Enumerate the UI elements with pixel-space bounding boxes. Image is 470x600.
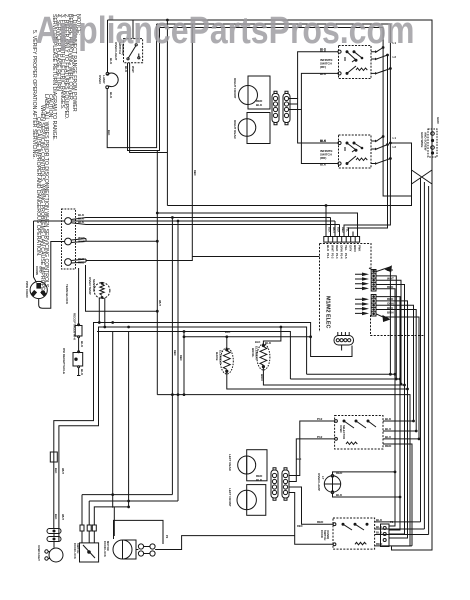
svg-text:BLU: BLU bbox=[385, 427, 391, 431]
svg-text:RED: RED bbox=[179, 355, 183, 361]
svg-text:BLK: BLK bbox=[326, 245, 330, 252]
svg-text:P12: P12 bbox=[317, 417, 323, 421]
svg-text:BAKE: BAKE bbox=[215, 352, 219, 361]
wire: motor connections bbox=[136, 547, 150, 554]
wire: neutral drop from terminal area bbox=[86, 265, 158, 311]
svg-text:ELEMENT: ELEMENT bbox=[219, 350, 223, 365]
svg-text:WHT: WHT bbox=[131, 66, 135, 73]
wire: second top line to right rail bbox=[157, 23, 391, 25]
svg-text:BLK: BLK bbox=[256, 478, 263, 482]
svg-text:PNK: PNK bbox=[358, 245, 362, 252]
svg-text:MOTOR: MOTOR bbox=[106, 541, 110, 551]
wire: pin risers bbox=[88, 501, 90, 525]
svg-text:BLK: BLK bbox=[54, 468, 58, 473]
svg-text:GRD: GRD bbox=[39, 266, 43, 274]
svg-text:WHT: WHT bbox=[158, 300, 162, 306]
terminal WHT bbox=[65, 238, 72, 245]
surface connector top strip 1 bbox=[272, 94, 279, 123]
svg-text:BLK: BLK bbox=[255, 340, 260, 344]
svg-text:OVEN TEMP: OVEN TEMP bbox=[88, 277, 92, 295]
svg-text:SWITCH: SWITCH bbox=[76, 543, 80, 553]
svg-text:RIGHT FRONT: RIGHT FRONT bbox=[233, 78, 237, 99]
tiny labels bbox=[25, 41, 440, 561]
svg-text:(RF): (RF) bbox=[320, 65, 326, 69]
svg-text:P1-5: P1-5 bbox=[344, 253, 348, 259]
svg-text:RED: RED bbox=[297, 524, 303, 528]
RF infinite switch (dashed) bbox=[339, 46, 372, 79]
wire: bake element connections bbox=[227, 337, 408, 389]
surface connector tabs bottom bbox=[273, 468, 287, 501]
svg-text:BLU: BLU bbox=[387, 306, 393, 310]
control header (8 pins) bbox=[324, 237, 360, 243]
svg-text:ELEMENT: ELEMENT bbox=[255, 346, 259, 361]
svg-text:PWR CORD: PWR CORD bbox=[25, 281, 29, 298]
right rear burner bbox=[238, 119, 256, 137]
svg-text:BLK: BLK bbox=[265, 341, 272, 345]
wire: third top line to right rail bbox=[160, 27, 384, 29]
svg-text:RED: RED bbox=[341, 227, 345, 233]
surface connector top strip 2 bbox=[283, 94, 290, 123]
svg-text:BLK: BLK bbox=[80, 341, 84, 348]
door lock motor bbox=[113, 540, 132, 559]
wire: bottom-left horizontals bbox=[82, 494, 172, 496]
wire: plug to terminal block bbox=[34, 221, 65, 283]
svg-text:SELECTOR: SELECTOR bbox=[342, 425, 346, 439]
wire: main top line L1 + right border + bottom stub bbox=[108, 20, 433, 550]
svg-text:P12: P12 bbox=[317, 435, 323, 439]
terminal block (dashed) bbox=[62, 209, 76, 269]
wire: rail v387.5 to header pin 7 bbox=[349, 55, 388, 237]
svg-text:BLK: BLK bbox=[256, 103, 263, 107]
wire: relay 1 fan bbox=[376, 267, 390, 374]
wire: rail v390.4 to header pin 6 bbox=[344, 24, 390, 237]
svg-text:ORN: ORN bbox=[340, 245, 344, 252]
wire: lamp connections bbox=[333, 472, 396, 475]
svg-text:BLK: BLK bbox=[320, 139, 327, 143]
wire: bus 1 (to header and ground X) bbox=[167, 170, 411, 206]
svg-text:BLK: BLK bbox=[225, 330, 230, 334]
svg-text:RECEPTACLE HI-K: RECEPTACLE HI-K bbox=[73, 313, 77, 341]
svg-text:DSI RECEPTACLE: DSI RECEPTACLE bbox=[62, 348, 66, 374]
svg-text:RED: RED bbox=[193, 170, 197, 176]
svg-text:RED: RED bbox=[387, 285, 394, 289]
svg-text:SENSOR: SENSOR bbox=[92, 279, 96, 293]
wire: vertical risers to buses bbox=[166, 148, 168, 206]
wire: BLK fan from terminal 1 bbox=[71, 218, 339, 225]
wire: bake feed line bbox=[184, 332, 311, 395]
svg-text:BLK: BLK bbox=[296, 457, 301, 461]
wire: left bus A (to sensor connector) bbox=[54, 323, 352, 529]
wire: DSI chain bbox=[78, 268, 80, 326]
svg-text:(OVEN): (OVEN) bbox=[326, 530, 330, 539]
svg-text:BROIL: BROIL bbox=[251, 348, 255, 358]
svg-text:WHT: WHT bbox=[61, 468, 65, 474]
wire: connector to RR switch lower bbox=[301, 110, 338, 164]
svg-text:WHT: WHT bbox=[61, 514, 65, 520]
wire: broil element connections bbox=[263, 327, 404, 385]
relay strip 2 bbox=[371, 295, 376, 317]
svg-text:RED: RED bbox=[335, 245, 339, 252]
surface connector bottom strip 2 bbox=[282, 470, 289, 498]
P2 connector box bottom right bbox=[381, 524, 390, 547]
svg-text:GRD WIRE: GRD WIRE bbox=[420, 132, 424, 147]
svg-text:RED: RED bbox=[376, 542, 383, 546]
svg-text:BLK: BLK bbox=[107, 130, 111, 135]
surface connector bottom strip 1 bbox=[271, 470, 278, 498]
surface connector tabs bbox=[274, 91, 288, 125]
wire: vertical drops mid-left bbox=[113, 332, 129, 507]
right front burner bbox=[239, 86, 258, 105]
wire: bus drops to header pins 3,4 bbox=[331, 218, 354, 237]
svg-text:BLK: BLK bbox=[109, 58, 113, 65]
svg-text:AND SCREW: AND SCREW bbox=[424, 132, 428, 151]
oven door switch (dashed) bbox=[333, 518, 375, 549]
left front burner bbox=[237, 490, 256, 509]
wire: relay 2 fan bbox=[376, 297, 400, 530]
svg-text:LT: LT bbox=[321, 476, 325, 480]
terminal RED bbox=[65, 259, 72, 266]
svg-text:GRY: GRY bbox=[349, 245, 353, 251]
svg-text:YEL: YEL bbox=[346, 227, 350, 232]
svg-text:RED: RED bbox=[317, 520, 324, 524]
svg-text:ORN: ORN bbox=[387, 302, 394, 306]
svg-text:OVEN: OVEN bbox=[98, 75, 102, 84]
oven light switch (dashed box) bbox=[124, 39, 143, 63]
wire: nested mid loops bbox=[307, 373, 395, 375]
svg-text:BLK: BLK bbox=[124, 66, 128, 73]
terminal BLK bbox=[65, 218, 72, 225]
svg-text:WHT: WHT bbox=[387, 277, 394, 281]
svg-text:LEFT REAR: LEFT REAR bbox=[228, 454, 232, 472]
svg-text:WHT: WHT bbox=[78, 240, 85, 244]
wire: sensor wires down bbox=[99, 298, 105, 328]
svg-text:OVEN LIGHT: OVEN LIGHT bbox=[37, 545, 41, 561]
svg-text:BLK: BLK bbox=[336, 493, 343, 497]
svg-text:BRN: BRN bbox=[353, 245, 357, 252]
relay strip 1 bbox=[371, 270, 376, 292]
oven lamp (bottom) bbox=[324, 476, 340, 492]
wire: WHT fan from terminal 2 bbox=[71, 239, 157, 243]
svg-text:BLK: BLK bbox=[387, 268, 394, 272]
svg-text:BLK: BLK bbox=[320, 163, 327, 167]
svg-text:L1: L1 bbox=[393, 136, 397, 140]
broil element bbox=[260, 347, 267, 366]
svg-text:P1-1: P1-1 bbox=[326, 253, 330, 259]
wire: RR switch outputs (spades) bbox=[371, 137, 390, 164]
svg-text:M1/M2 ELEC: M1/M2 ELEC bbox=[325, 296, 331, 328]
oven lamp (top left) bbox=[107, 20, 109, 73]
svg-text:BLK: BLK bbox=[80, 369, 84, 376]
svg-text:RED: RED bbox=[387, 297, 394, 301]
svg-text:BLK: BLK bbox=[109, 92, 113, 99]
wire: selector switch left connections bbox=[289, 421, 335, 476]
left rear burner bbox=[238, 456, 256, 474]
svg-text:RED: RED bbox=[336, 471, 343, 475]
wire: left bus B (staircase down) bbox=[59, 327, 307, 537]
inline fuse on bulb wire bbox=[50, 452, 57, 462]
svg-text:LAMP: LAMP bbox=[102, 75, 106, 84]
wire: selector outputs right bbox=[383, 421, 419, 546]
motor connector circles bbox=[138, 544, 143, 549]
svg-text:L2: L2 bbox=[393, 55, 397, 59]
wire: RED fan from terminal 3 bbox=[71, 24, 192, 263]
RR infinite switch (dashed) bbox=[339, 135, 372, 168]
bake element bbox=[223, 351, 230, 370]
svg-text:BLU: BLU bbox=[376, 531, 382, 535]
svg-text:BLK: BLK bbox=[54, 514, 58, 519]
inline connectors above bulb bbox=[47, 529, 61, 534]
pwr cord plug bbox=[30, 281, 47, 298]
svg-text:YEL: YEL bbox=[344, 245, 348, 251]
wire: door switch outputs bbox=[375, 522, 429, 546]
notice text block (rotated 90deg) bbox=[31, 14, 81, 295]
door lock pins bbox=[80, 525, 84, 531]
wire: bus 3 (RED to board) bbox=[192, 256, 319, 258]
relay connector arrows 2 bbox=[362, 298, 369, 316]
wire: connector to RF switch lower bbox=[289, 73, 339, 109]
svg-text:CONN: CONN bbox=[35, 266, 39, 275]
svg-text:RED: RED bbox=[78, 261, 85, 265]
svg-text:OVEN LAMP: OVEN LAMP bbox=[317, 473, 321, 491]
svg-text:L2: L2 bbox=[393, 145, 397, 149]
ground strap on border bbox=[428, 129, 437, 157]
receptacle HI-K bbox=[75, 326, 82, 337]
door lock switch body bbox=[80, 543, 99, 562]
sensor connector P4 on board bbox=[334, 336, 354, 346]
svg-text:BLK: BLK bbox=[337, 227, 341, 232]
svg-text:BLU: BLU bbox=[376, 525, 382, 529]
wire: RF switch outputs (spades) bbox=[371, 48, 390, 74]
svg-text:(RR): (RR) bbox=[320, 156, 326, 160]
svg-text:RED: RED bbox=[385, 444, 392, 448]
wire: bus1 drop to header pin 1 bbox=[325, 206, 327, 237]
svg-text:P1-4: P1-4 bbox=[340, 253, 344, 259]
bulb (oven light) bbox=[53, 534, 55, 548]
svg-text:WHT: WHT bbox=[332, 227, 336, 233]
svg-text:BLK: BLK bbox=[320, 72, 327, 76]
svg-text:BLK: BLK bbox=[376, 518, 383, 522]
wire: connector to RR switch bbox=[289, 99, 339, 144]
svg-text:BLK: BLK bbox=[385, 417, 392, 421]
DSI receptacle bbox=[73, 353, 83, 367]
svg-text:BRN: BRN bbox=[260, 374, 264, 381]
oven selector switch (dashed) bbox=[335, 416, 383, 450]
svg-text:LEFT FRONT: LEFT FRONT bbox=[228, 488, 232, 507]
svg-text:P1-2: P1-2 bbox=[331, 253, 335, 259]
svg-text:RIGHT REAR: RIGHT REAR bbox=[233, 120, 237, 140]
relay connector arrows 1 bbox=[362, 273, 369, 291]
svg-text:BLU: BLU bbox=[385, 435, 391, 439]
control board dashed outline M1/M2 ELEC bbox=[320, 244, 425, 336]
wire: rail v383 to header pin 8 bbox=[383, 28, 411, 197]
svg-text:WHT: WHT bbox=[331, 245, 335, 252]
wire: left bus C (staircase down) bbox=[97, 332, 290, 380]
svg-text:GRD: GRD bbox=[436, 117, 440, 125]
wire: strip row 3 to door switch (RED) bbox=[289, 487, 333, 524]
wire: bus 2 bbox=[157, 213, 357, 237]
wire: strip row 4 to door switch bbox=[289, 493, 333, 545]
wire: connector to RF switch bbox=[289, 52, 339, 99]
svg-text:BLK: BLK bbox=[78, 220, 85, 224]
oven temp sensor bbox=[94, 283, 110, 299]
svg-text:BRN: BRN bbox=[387, 311, 394, 315]
svg-text:TERM BLOCK: TERM BLOCK bbox=[65, 284, 69, 305]
svg-text:RED: RED bbox=[173, 350, 177, 356]
svg-text:BLK: BLK bbox=[328, 227, 332, 232]
svg-text:AppliancePartsPros.com: AppliancePartsPros.com bbox=[36, 10, 415, 52]
wire: lamp bottom down and over to riser bbox=[107, 24, 156, 148]
wire: switch outputs down bbox=[128, 28, 160, 151]
svg-text:P1-3: P1-3 bbox=[335, 253, 339, 259]
wire: ground jog and X crossover bbox=[390, 143, 432, 184]
svg-text:P2: P2 bbox=[390, 520, 394, 524]
svg-text:P2: P2 bbox=[165, 535, 169, 539]
